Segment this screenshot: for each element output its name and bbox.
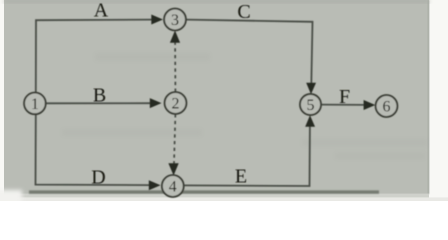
wire B: node1 right to node2 (46, 102, 151, 104)
arrowhead dummy into node4 (168, 163, 178, 175)
node 2 (165, 92, 187, 114)
node 6 (376, 95, 398, 117)
arrowhead dummy into node3 (170, 31, 180, 43)
svg-text:6: 6 (383, 99, 391, 116)
wire D: node1 down, corner, right to node4 (36, 114, 150, 185)
svg-text:4: 4 (169, 179, 177, 196)
svg-text:2: 2 (172, 96, 180, 113)
svg-text:E: E (235, 166, 247, 188)
arrowhead D into node4 (149, 180, 161, 190)
arrowhead A into node3 (151, 15, 163, 25)
node 4 (162, 175, 184, 197)
node 3 (164, 9, 186, 31)
arrowhead F into node6 (364, 100, 376, 110)
dashed dummy wire node2 to node3 (174, 43, 176, 92)
svg-text:F: F (339, 86, 350, 108)
node 5 (300, 94, 321, 115)
svg-text:5: 5 (307, 97, 315, 114)
arrowhead C into node5 (306, 83, 316, 95)
wire E: node4 right, corner, up to node5 (184, 126, 310, 186)
svg-text:C: C (237, 1, 250, 23)
bottom light area (4, 194, 429, 198)
photo gray background (4, 0, 429, 194)
right boundary edge line (428, 0, 430, 194)
svg-text:1: 1 (31, 96, 39, 113)
arrowhead E into node5 (305, 115, 315, 127)
top darker edge (4, 0, 429, 3)
svg-text:B: B (93, 84, 106, 106)
arrowhead B into node2 (150, 98, 162, 108)
wire C: node3 right, corner, down to node5 (186, 20, 312, 85)
faint ghost smudges (62, 53, 427, 159)
svg-text:3: 3 (171, 12, 179, 29)
bottom-left white corner blob (0, 190, 22, 204)
wire A: node1 up, corner, right to node3 (36, 20, 153, 93)
node 1 (24, 93, 46, 115)
dashed dummy wire node2 to node4 (174, 114, 175, 163)
bottom shadow band (29, 190, 379, 193)
wire F: node5 right to node6 (321, 104, 364, 106)
svg-text:D: D (91, 167, 105, 189)
svg-text:A: A (94, 0, 109, 22)
